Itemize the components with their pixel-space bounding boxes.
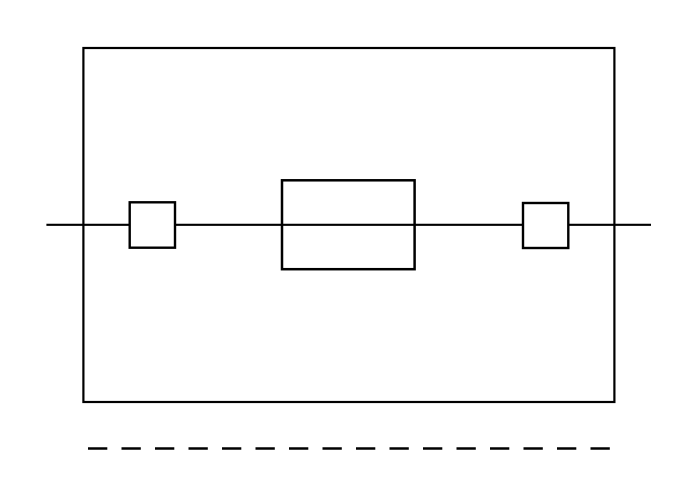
wire (through conductor) <box>46 224 651 226</box>
left clamp contact <box>130 202 175 247</box>
mounting rail (dashed line) <box>88 447 610 450</box>
right clamp contact <box>523 203 568 248</box>
fuse element F1 body <box>282 180 415 269</box>
terminal block enclosure outline <box>83 48 614 402</box>
